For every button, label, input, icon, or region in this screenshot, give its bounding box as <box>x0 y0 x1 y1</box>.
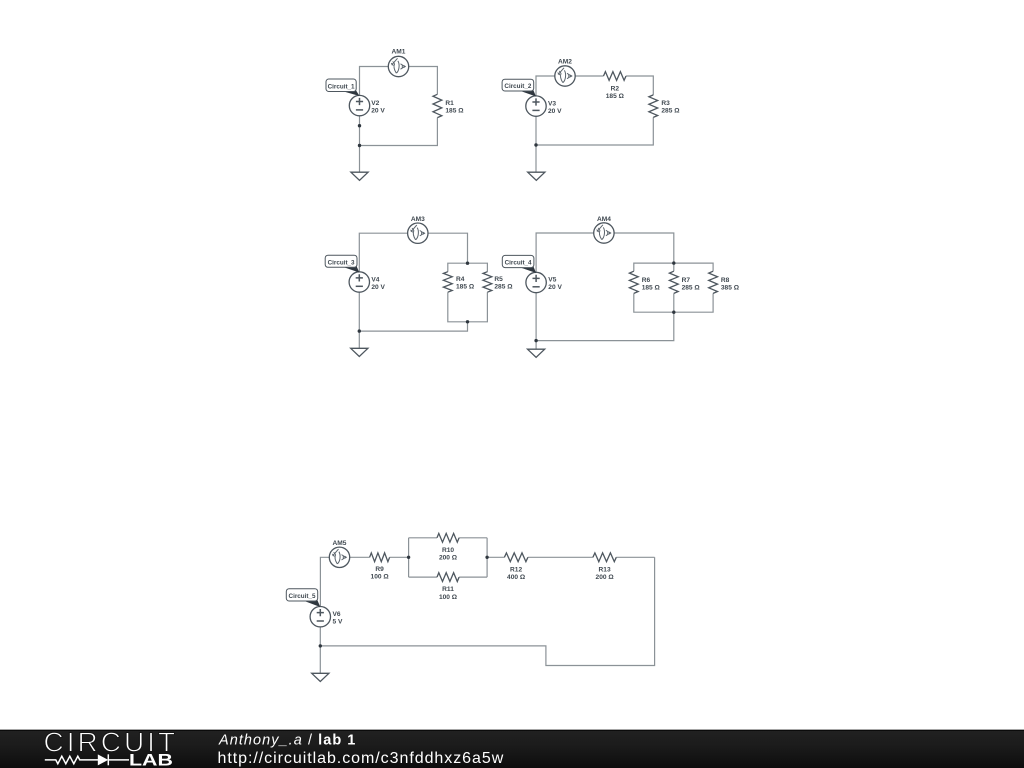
voltage source V6 5 V <box>310 607 330 627</box>
wire: circuit 3 bottom return <box>359 322 467 331</box>
resistor R11 100 Ω <box>437 573 459 582</box>
label callout Circuit_5 <box>302 599 321 608</box>
wire: circuit 5 R13 to right corner <box>616 556 654 558</box>
voltage source V3 20 V <box>526 96 546 116</box>
wire: circuit 5 parallel left bus <box>408 538 410 577</box>
wire: circuit 5 parallel box to R12 <box>487 556 504 558</box>
resistor R3 285 Ω <box>649 95 658 118</box>
ammeter AM1 <box>388 56 408 76</box>
label callout Circuit_3 <box>341 265 359 273</box>
ammeter AM3 <box>408 223 428 243</box>
resistor R7 285 Ω <box>669 271 678 293</box>
label callout Circuit_4 <box>518 265 536 273</box>
wire: circuit 3 ground stub <box>358 331 360 348</box>
resistor R4 185 Ω <box>443 272 452 293</box>
wire: circuit 5 parallel right bus <box>486 538 488 577</box>
wire: circuit 5 V6 bottom <box>319 627 321 646</box>
wire: circuit 3 V4 bottom <box>358 292 360 331</box>
wire: circuit 2 top V3->AM2->R2 <box>536 76 604 96</box>
wire: circuit 2 ground stub <box>535 145 537 172</box>
ground: circuit 5 <box>312 673 329 681</box>
wire: circuit 4 ground stub <box>535 341 537 350</box>
voltage source V5 20 V <box>526 272 546 292</box>
wire: circuit 2 bottom return R3->V3 <box>536 117 653 145</box>
wire: circuit 5 return right side down <box>320 557 654 665</box>
voltage source V2 20 V <box>349 95 369 115</box>
resistor R5 285 Ω <box>483 272 492 293</box>
resistor R9 100 Ω <box>370 553 390 562</box>
wire: circuit 2 R2 to R3 top <box>626 76 653 95</box>
wire: circuit 5 ground stub <box>319 646 321 673</box>
wire: circuit 3 top V4->AM3->parallel <box>359 233 467 272</box>
ammeter AM5 <box>329 547 349 567</box>
wire: circuit 1 ground stub <box>359 146 361 173</box>
wire: circuit 3 parallel top bus <box>448 263 488 272</box>
logo diode triangle <box>98 754 108 765</box>
node: circuit 3 ground junction <box>358 329 361 332</box>
node: circuit 1 ground junction <box>358 144 361 147</box>
wire: circuit 5 R10 top branch <box>409 537 437 539</box>
wire: circuit 1 V2 bottom to ground corner <box>359 116 361 146</box>
node: circuit 3 parallel top junction <box>466 262 469 265</box>
svg-text:LAB: LAB <box>129 752 173 768</box>
node: circuit 4 parallel top junction <box>672 261 675 264</box>
node: circuit 4 parallel bottom junction <box>672 311 675 314</box>
node: circuit 5 parallel left junction <box>407 556 410 559</box>
wire: circuit 4 parallel top bus <box>634 263 713 271</box>
label callout Circuit_2 <box>518 89 536 97</box>
wire: circuit 5 R12 to R13 <box>528 556 593 558</box>
wire: circuit 4 parallel bottom bus <box>634 293 713 312</box>
node: circuit 2 ground junction <box>534 143 537 146</box>
wire: circuit 4 bottom return <box>536 312 674 340</box>
resistor R12 400 Ω <box>504 553 528 562</box>
svg-text:http://circuitlab.com/c3nfddhx: http://circuitlab.com/c3nfddhxz6a5w <box>218 750 505 767</box>
wire: circuit 2 V3 bottom <box>535 116 537 145</box>
ground: circuit 4 <box>528 349 545 357</box>
node: circuit 3 parallel bottom junction <box>466 320 469 323</box>
svg-text:Anthony_.a / lab 1: Anthony_.a / lab 1 <box>218 732 356 748</box>
wire: circuit 5 V6 top to AM5 <box>320 557 330 606</box>
node: circuit 5 ground junction <box>319 644 322 647</box>
wire: circuit 1 bottom return R1->V2 <box>360 118 438 146</box>
node: circuit 4 ground junction <box>534 339 537 342</box>
wire: circuit 3 parallel bottom bus <box>448 292 488 322</box>
ammeter AM4 <box>594 223 614 243</box>
voltage source V4 20 V <box>349 272 369 292</box>
logo resistor-diode glyph <box>45 754 129 765</box>
wire: circuit 5 R11 bottom branch <box>409 576 437 578</box>
resistor R8 385 Ω <box>709 271 718 293</box>
resistor R10 200 Ω <box>437 533 459 542</box>
wire: circuit 5 AM5 to R9 <box>349 556 370 558</box>
footer bar <box>0 729 1024 730</box>
ground: circuit 1 <box>351 172 368 180</box>
resistor R1 185 Ω <box>433 94 442 117</box>
wire: circuit 1 top loop V2->AM1->R1 <box>360 67 438 96</box>
ground: circuit 3 <box>351 348 368 356</box>
node: V2 negative terminal <box>358 124 361 127</box>
wire: circuit 4 V5 bottom <box>535 293 537 341</box>
resistor R13 200 Ω <box>593 553 616 562</box>
label callout Circuit_1 <box>340 89 359 96</box>
resistor R6 185 Ω <box>629 271 638 293</box>
wire: circuit 5 R9 to parallel box <box>390 556 409 558</box>
resistor R2 185 Ω <box>604 72 627 81</box>
wire: circuit 4 R7 legs <box>673 263 675 271</box>
ground: circuit 2 <box>528 172 545 180</box>
wire: circuit 4 top V5->AM4->parallel <box>536 233 674 273</box>
ammeter AM2 <box>555 66 575 86</box>
node: circuit 5 parallel right junction <box>485 556 488 559</box>
